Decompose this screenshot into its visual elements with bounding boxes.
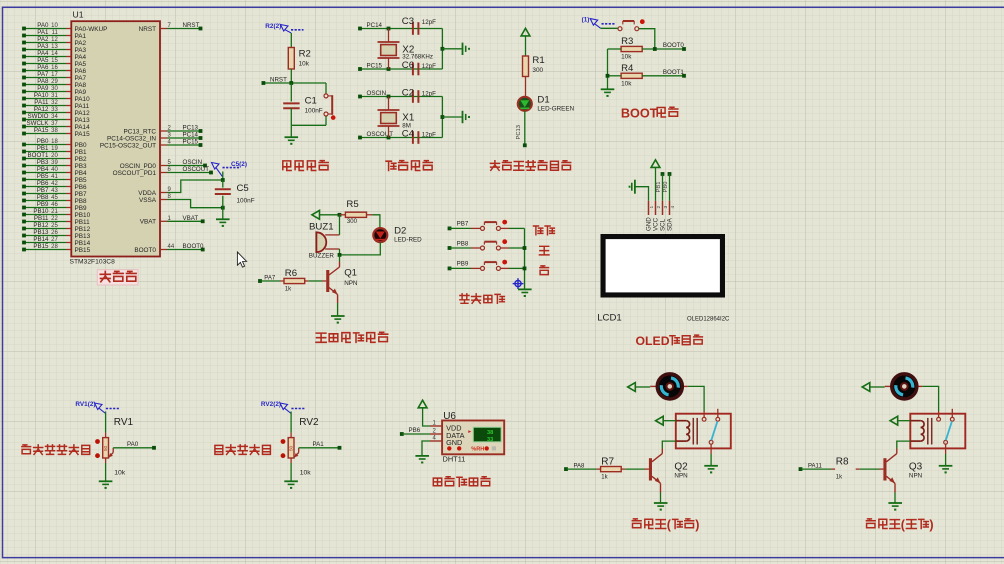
svg-text:PC13_RTC: PC13_RTC bbox=[123, 128, 156, 135]
svg-text:U6: U6 bbox=[443, 411, 456, 422]
wire to ground (reset) bbox=[290, 125, 292, 137]
svg-text:R3: R3 bbox=[621, 36, 633, 47]
svg-text:PA11: PA11 bbox=[75, 103, 90, 110]
svg-text:100nF: 100nF bbox=[237, 198, 255, 205]
svg-text:PB1: PB1 bbox=[37, 145, 49, 152]
svg-text:22: 22 bbox=[51, 216, 58, 222]
svg-text:PB7: PB7 bbox=[37, 187, 49, 194]
svg-text:4: 4 bbox=[670, 206, 676, 209]
ground (DHT11) bbox=[415, 455, 429, 457]
svg-text:25: 25 bbox=[51, 223, 58, 229]
svg-text:PB12: PB12 bbox=[33, 222, 49, 229]
relay coil bbox=[676, 421, 690, 441]
svg-text:PA12: PA12 bbox=[75, 110, 91, 117]
push button (BOOT) bbox=[618, 19, 645, 30]
svg-text:PA0: PA0 bbox=[37, 22, 49, 29]
label 继电器(风扇) bbox=[632, 519, 641, 528]
label 程序运行指示灯 (run indicator) bbox=[490, 161, 499, 171]
svg-text:PB10: PB10 bbox=[75, 212, 91, 219]
ground (crystal upper, rotated) bbox=[462, 43, 464, 55]
svg-text:VSSA: VSSA bbox=[139, 197, 157, 204]
relay switch blade bbox=[946, 421, 952, 440]
pin PA12 (33) / net PA12 bbox=[22, 106, 90, 117]
svg-text:PB2: PB2 bbox=[75, 156, 88, 163]
svg-text:D2: D2 bbox=[394, 226, 406, 237]
svg-text:PA13: PA13 bbox=[75, 117, 91, 124]
svg-text:14: 14 bbox=[51, 51, 58, 57]
wire OLED pin1 to ground bbox=[635, 187, 649, 201]
wire OLED pin2 power bbox=[655, 167, 657, 201]
pin PB12 (25) / net PB12 bbox=[22, 222, 90, 233]
svg-text:PB0: PB0 bbox=[75, 142, 88, 149]
svg-text:PC15-OSC32_OUT: PC15-OSC32_OUT bbox=[100, 142, 156, 149]
net PB0 wire to OLED pin4 bbox=[663, 172, 671, 201]
svg-text:PC15: PC15 bbox=[183, 139, 199, 146]
svg-text:PB15: PB15 bbox=[33, 243, 49, 250]
node rail-ground junction (upper) bbox=[441, 47, 445, 51]
wire power to coil bbox=[663, 420, 676, 422]
svg-text:PB3: PB3 bbox=[75, 163, 88, 170]
svg-text:Q1: Q1 bbox=[344, 268, 357, 279]
label 晶振电路 (crystal circuit) bbox=[386, 161, 396, 170]
svg-text:NRST: NRST bbox=[270, 76, 287, 83]
wire C1/button bottom rail bbox=[291, 124, 326, 126]
svg-text:33: 33 bbox=[487, 437, 493, 443]
svg-text:SDA: SDA bbox=[667, 217, 674, 231]
svg-text:PA4: PA4 bbox=[37, 50, 49, 57]
svg-text:27: 27 bbox=[51, 237, 58, 243]
svg-text:RV2: RV2 bbox=[299, 417, 319, 428]
svg-text:PB13: PB13 bbox=[75, 233, 91, 240]
svg-text:1k: 1k bbox=[601, 474, 608, 480]
net PB1 wire to OLED pin3 bbox=[656, 172, 664, 201]
svg-text:VBAT: VBAT bbox=[140, 219, 156, 226]
pin GND (4) bbox=[430, 436, 462, 447]
svg-text:C1: C1 bbox=[305, 96, 317, 107]
pin PB11 (22) / net PB11 bbox=[22, 215, 90, 226]
svg-text:10k: 10k bbox=[300, 470, 312, 477]
svg-text:RV1: RV1 bbox=[114, 417, 134, 428]
transistor Q3 NPN bbox=[883, 449, 922, 493]
pin OSCOUT_PD1 (6) / net OSCOUT bbox=[113, 166, 213, 177]
LED D2 LED-RED bbox=[373, 226, 422, 244]
pin PB14 (27) / net PB14 bbox=[22, 236, 90, 247]
svg-text:SWDIO: SWDIO bbox=[28, 113, 49, 120]
label 甲醛值调节 bbox=[215, 445, 223, 454]
svg-text:D1: D1 bbox=[537, 95, 549, 106]
svg-text:15: 15 bbox=[51, 58, 58, 64]
transistor Q2 NPN bbox=[649, 449, 688, 493]
svg-text:NPN: NPN bbox=[674, 472, 688, 479]
wire power to R1 bbox=[525, 36, 527, 57]
pin PA8 (29) / net PA8 bbox=[22, 78, 86, 89]
svg-text:R6: R6 bbox=[285, 268, 297, 279]
svg-text:PA1: PA1 bbox=[313, 441, 325, 448]
ground (RV1) bbox=[99, 480, 113, 482]
pin PB8 (45) / net PB8 bbox=[22, 194, 87, 205]
buzzer BUZ1 bbox=[309, 222, 340, 260]
power symbol (relay coil) bbox=[890, 416, 898, 425]
svg-text:RV2(2): RV2(2) bbox=[261, 401, 281, 408]
svg-text:PA10: PA10 bbox=[75, 96, 91, 103]
ground (alarm) bbox=[331, 315, 345, 317]
svg-text:C5(2): C5(2) bbox=[231, 161, 247, 168]
svg-text:13: 13 bbox=[51, 44, 58, 50]
relay core bars bbox=[693, 418, 697, 445]
pin OSCIN_PD0 (5) / net OSCIN bbox=[120, 159, 207, 170]
pin PA4 (14) / net PA4 bbox=[22, 50, 86, 61]
node NRST/R2/C1 junction bbox=[289, 81, 293, 85]
node OSCIN crystal junction bbox=[387, 95, 391, 99]
wire R2 top bbox=[290, 33, 292, 48]
svg-text:VBAT: VBAT bbox=[183, 215, 199, 222]
svg-text:NRST: NRST bbox=[139, 26, 156, 33]
svg-text:PB8: PB8 bbox=[75, 198, 88, 205]
svg-text:): ) bbox=[929, 518, 933, 532]
svg-text:1k: 1k bbox=[836, 474, 843, 480]
node PC14 crystal junction bbox=[387, 27, 391, 31]
svg-text:11: 11 bbox=[52, 30, 59, 36]
svg-text:PA7: PA7 bbox=[75, 75, 87, 82]
svg-text:PC14: PC14 bbox=[367, 22, 383, 29]
net PA0 wire from RV1 wiper bbox=[113, 441, 156, 450]
svg-text:PA8: PA8 bbox=[37, 78, 49, 85]
ground (RV2) bbox=[284, 480, 298, 482]
DHT11 buttons and %RH bbox=[447, 446, 496, 452]
svg-text:33: 33 bbox=[51, 107, 58, 113]
relay contact pins bbox=[702, 409, 720, 454]
svg-text:12pF: 12pF bbox=[422, 131, 436, 138]
blue wire-label R2(2) bbox=[265, 23, 303, 33]
svg-text:10k: 10k bbox=[621, 80, 632, 87]
svg-text:39: 39 bbox=[51, 160, 58, 166]
svg-text:17: 17 bbox=[51, 72, 58, 78]
svg-text:C5: C5 bbox=[237, 183, 249, 194]
svg-text:12pF: 12pF bbox=[422, 63, 436, 70]
svg-text:BUZZER: BUZZER bbox=[309, 253, 335, 260]
svg-text:PA1: PA1 bbox=[75, 33, 87, 40]
label 声光报警电路 (sound-light alarm) bbox=[316, 333, 326, 342]
wire coil bottom to collector bbox=[897, 441, 911, 448]
svg-text:18: 18 bbox=[51, 139, 58, 145]
capacitor C3 12pF bbox=[402, 16, 436, 35]
svg-text:SWCLK: SWCLK bbox=[26, 120, 49, 127]
svg-text:R7: R7 bbox=[601, 456, 614, 467]
wire relay common to ground bbox=[945, 454, 947, 465]
svg-text:PC15: PC15 bbox=[367, 63, 383, 70]
svg-text:C6: C6 bbox=[402, 60, 414, 71]
label 继电器(净化) bbox=[866, 519, 875, 528]
svg-text:28: 28 bbox=[51, 244, 58, 250]
svg-text:42: 42 bbox=[51, 181, 58, 187]
svg-text:10k: 10k bbox=[299, 61, 310, 68]
svg-text:PC14-OSC32_IN: PC14-OSC32_IN bbox=[107, 135, 156, 142]
svg-text:R5: R5 bbox=[346, 199, 358, 210]
svg-text:PA15: PA15 bbox=[34, 127, 49, 134]
relay switch blade bbox=[711, 421, 717, 440]
wire GND to ground (DHT11) bbox=[422, 441, 430, 456]
crystal X2 32.768KHz bbox=[378, 29, 433, 70]
svg-text:BOOT0: BOOT0 bbox=[183, 243, 205, 250]
svg-text:C3: C3 bbox=[402, 16, 414, 27]
svg-text:PB3: PB3 bbox=[37, 159, 49, 166]
wire junction to buzzer top bbox=[339, 215, 341, 235]
svg-text:PB4: PB4 bbox=[75, 170, 88, 177]
resistor R4 10k bbox=[621, 63, 642, 87]
svg-text:16: 16 bbox=[51, 65, 58, 71]
svg-text:19: 19 bbox=[51, 146, 58, 152]
resistor R1 300 bbox=[523, 55, 545, 76]
node rail-ground junction (lower) bbox=[441, 115, 445, 119]
push button PB9 bbox=[448, 260, 525, 271]
wire coil bottom to collector bbox=[662, 441, 676, 448]
wire emitter to ground (Q3) bbox=[894, 493, 896, 503]
wire relay common to ground bbox=[710, 454, 712, 465]
svg-text:U1: U1 bbox=[73, 10, 84, 20]
node BOOT0 terminal bbox=[682, 47, 686, 51]
svg-text:10k: 10k bbox=[114, 470, 126, 477]
svg-text:1k: 1k bbox=[285, 287, 292, 293]
svg-text:PB12: PB12 bbox=[75, 226, 91, 233]
relay RL (继电器(风扇)) body bbox=[676, 414, 731, 449]
wire rail to ground stub (lower) bbox=[442, 116, 461, 118]
pin VDDA (9) bbox=[138, 187, 171, 197]
svg-text:PA9: PA9 bbox=[37, 85, 49, 92]
label 可燃气值调节 bbox=[22, 445, 31, 454]
wire R3 right / net BOOT0 bbox=[642, 42, 684, 49]
label 主芯片 (main chip) highlight box bbox=[97, 270, 138, 285]
blue wire-label C5(2) bbox=[212, 161, 247, 176]
pin PA9 (30) / net PA9 bbox=[22, 85, 86, 96]
svg-text:PA0-WKUP: PA0-WKUP bbox=[75, 26, 108, 33]
pin PA6 (16) / net PA6 bbox=[22, 64, 86, 75]
svg-text:OLED12864I2C: OLED12864I2C bbox=[687, 316, 730, 322]
power symbol (alarm) bbox=[312, 210, 320, 219]
mouse cursor bbox=[237, 252, 246, 267]
svg-text:OSCIN: OSCIN bbox=[367, 90, 387, 97]
power symbol (OLED) bbox=[651, 160, 660, 168]
svg-text:OSCIN_PD0: OSCIN_PD0 bbox=[120, 163, 157, 170]
svg-text:PA11: PA11 bbox=[34, 99, 49, 106]
capacitor C5 100nF bbox=[215, 180, 255, 208]
svg-text:PB0: PB0 bbox=[37, 138, 49, 145]
power symbol (DHT11) bbox=[418, 400, 427, 408]
resistor R7 1k / net PA8 bbox=[564, 456, 649, 480]
pin PA15 (38) / net PA15 bbox=[22, 127, 90, 138]
pin PC14-OSC32_IN (3) / net PC14 bbox=[107, 132, 202, 143]
wire R4 left bbox=[608, 75, 622, 77]
resistor R6 1k / net PA7 bbox=[258, 268, 326, 292]
svg-text:BOOT1: BOOT1 bbox=[28, 152, 50, 159]
svg-text:PB6: PB6 bbox=[409, 427, 421, 434]
svg-text:50: 50 bbox=[289, 445, 294, 451]
pin PA13 (34) / net SWDIO bbox=[22, 113, 90, 124]
wire VSSA to C5 bottom bbox=[167, 200, 223, 208]
svg-text:46: 46 bbox=[51, 202, 58, 208]
svg-text:3: 3 bbox=[663, 206, 669, 209]
svg-text:BOOT1: BOOT1 bbox=[663, 69, 685, 76]
wire to boot button bbox=[601, 27, 618, 29]
net PC15 wire bbox=[358, 63, 442, 71]
resistor R2 10k bbox=[288, 48, 311, 70]
wire R3 left bbox=[608, 48, 622, 50]
pin PB0 (18) / net PB0 bbox=[22, 138, 87, 149]
wire VDDA to C5 top bbox=[167, 180, 223, 193]
node collector junction bbox=[338, 253, 342, 257]
label 复位电路 (reset circuit) bbox=[283, 161, 291, 171]
svg-text:PA1: PA1 bbox=[37, 29, 49, 36]
pin VSSA (8) bbox=[139, 194, 172, 204]
label 温湿度模块 (temp/humidity module) bbox=[433, 478, 441, 486]
push button PB8 bbox=[448, 239, 525, 250]
svg-text:PB6: PB6 bbox=[75, 184, 88, 191]
svg-text:PA5: PA5 bbox=[75, 61, 87, 68]
svg-text:R2(2): R2(2) bbox=[265, 23, 281, 30]
svg-text:PB11: PB11 bbox=[75, 219, 91, 226]
svg-text:38: 38 bbox=[51, 128, 58, 134]
wire crystal right rail (upper) bbox=[441, 29, 443, 70]
wire motor to relay pin bbox=[688, 386, 704, 411]
wire D2 to bottom rail bbox=[340, 242, 381, 255]
svg-text:BOOT0: BOOT0 bbox=[663, 42, 685, 49]
svg-text:PB11: PB11 bbox=[34, 215, 49, 222]
svg-text:Q2: Q2 bbox=[674, 462, 688, 473]
wire power to coil bbox=[897, 420, 910, 422]
ground (relay contact) bbox=[939, 465, 953, 467]
svg-text:44: 44 bbox=[168, 244, 175, 250]
node PC15 crystal junction bbox=[387, 67, 391, 71]
relay core bars bbox=[928, 418, 932, 445]
svg-text:34: 34 bbox=[51, 114, 58, 120]
svg-text:PA3: PA3 bbox=[37, 43, 49, 50]
ground (crystal lower, rotated) bbox=[462, 111, 464, 123]
svg-text:NPN: NPN bbox=[344, 280, 358, 287]
node PC13 wire end bbox=[523, 143, 527, 147]
wire button to BOOT0 rail bbox=[639, 29, 655, 49]
power symbol (relay coil) bbox=[656, 416, 664, 425]
svg-text:300: 300 bbox=[347, 219, 358, 225]
MCU U1 STM32F103C8 body bbox=[71, 21, 160, 256]
pin PB3 (39) / net PB3 bbox=[22, 159, 87, 170]
ground (OLED, rotated left) bbox=[634, 180, 636, 194]
svg-text:PB9: PB9 bbox=[37, 201, 49, 208]
capacitor C4 12pF bbox=[402, 128, 436, 144]
blue wire-label RV1(2) bbox=[75, 401, 119, 413]
power symbol (fan Q2) bbox=[628, 383, 636, 392]
wire power to motor bbox=[635, 386, 650, 388]
svg-text:): ) bbox=[695, 518, 699, 532]
svg-text:PC13: PC13 bbox=[183, 125, 199, 132]
blue wire-label RV2(2) bbox=[261, 401, 305, 413]
svg-text:12pF: 12pF bbox=[422, 90, 436, 97]
svg-text:40: 40 bbox=[51, 167, 58, 173]
svg-text:STM32F103C8: STM32F103C8 bbox=[70, 258, 116, 265]
relay contact pins bbox=[937, 409, 955, 454]
svg-text:PB10: PB10 bbox=[33, 208, 49, 215]
svg-text:DHT11: DHT11 bbox=[443, 455, 466, 464]
resistor R8 1k / net PA11 bbox=[799, 456, 884, 480]
svg-text:OSCIN: OSCIN bbox=[183, 159, 203, 166]
label 减 (minus) bbox=[540, 266, 549, 275]
node rail PB8 junction bbox=[523, 246, 527, 250]
svg-text:10: 10 bbox=[51, 23, 58, 29]
pin PB2 (20) / net BOOT1 bbox=[22, 152, 87, 163]
svg-text:PB14: PB14 bbox=[33, 236, 49, 243]
wire power to VDD bbox=[423, 407, 430, 426]
pin PA1 (11) / net PA1 bbox=[22, 29, 86, 40]
label 主芯片 text bbox=[100, 271, 110, 281]
svg-text:PB1: PB1 bbox=[75, 149, 88, 156]
net PC14 wire bbox=[358, 22, 442, 30]
ground (Q2 emitter) bbox=[654, 502, 668, 504]
wire C5 to ground bbox=[222, 208, 224, 219]
svg-text:(1): (1) bbox=[582, 16, 590, 23]
power symbol (fan Q3) bbox=[862, 383, 870, 392]
pin NRST (7) / net NRST bbox=[139, 22, 203, 33]
svg-text:PA10: PA10 bbox=[34, 92, 49, 99]
resistor R3 10k bbox=[621, 36, 642, 60]
pin PB4 (40) / net PB4 bbox=[22, 166, 87, 177]
svg-text:PC14: PC14 bbox=[183, 132, 199, 139]
svg-text:C2: C2 bbox=[402, 87, 414, 98]
svg-text:R1: R1 bbox=[532, 55, 544, 66]
svg-text:26: 26 bbox=[51, 230, 58, 236]
wire RV1 top bbox=[105, 412, 107, 433]
svg-text:1: 1 bbox=[649, 206, 655, 209]
wire RV1 bottom to ground bbox=[105, 458, 107, 463]
svg-text:PA4: PA4 bbox=[75, 54, 87, 61]
svg-text:10k: 10k bbox=[621, 54, 632, 61]
svg-text:300: 300 bbox=[532, 67, 543, 74]
push button (reset) bbox=[324, 83, 336, 125]
svg-text:PB5: PB5 bbox=[37, 173, 49, 180]
svg-text:PA6: PA6 bbox=[37, 64, 49, 71]
svg-text:PB9: PB9 bbox=[75, 205, 88, 212]
power symbol (indicator) bbox=[521, 28, 530, 36]
svg-text:PA12: PA12 bbox=[34, 106, 49, 113]
svg-text:12pF: 12pF bbox=[422, 19, 436, 26]
svg-text:43: 43 bbox=[51, 188, 58, 194]
svg-text:12: 12 bbox=[51, 37, 58, 43]
ground (keys) bbox=[518, 288, 532, 290]
svg-text:VCC: VCC bbox=[653, 217, 660, 231]
svg-text:SCL: SCL bbox=[660, 218, 667, 231]
wire buzzer bottom to collector rail bbox=[339, 249, 341, 255]
pin VBAT (1) / net VBAT bbox=[140, 215, 205, 226]
LED D1 LED-GREEN bbox=[518, 95, 575, 113]
relay RL (继电器(净化)) body bbox=[910, 414, 965, 449]
svg-text:100nF: 100nF bbox=[305, 108, 323, 115]
svg-text:VDDA: VDDA bbox=[138, 190, 156, 197]
motor/fan (继电器(风扇)) bbox=[650, 374, 688, 399]
svg-text:LED-GREEN: LED-GREEN bbox=[537, 105, 574, 112]
svg-text:R8: R8 bbox=[836, 456, 849, 467]
svg-text:LCD1: LCD1 bbox=[597, 312, 622, 323]
resistor R5 300 bbox=[340, 199, 373, 225]
svg-text:2: 2 bbox=[656, 206, 662, 209]
svg-text:29: 29 bbox=[51, 79, 58, 85]
wire R4 right / net BOOT1 bbox=[642, 69, 684, 76]
svg-text:OLED: OLED bbox=[636, 334, 670, 348]
wire RV2 top bbox=[290, 412, 292, 433]
ground (C5) bbox=[216, 218, 230, 220]
svg-text:BOOT: BOOT bbox=[621, 106, 658, 120]
wire stub above C5 junction bbox=[222, 172, 224, 181]
potentiometer RV1 10k bbox=[95, 417, 133, 477]
pin PB6 (42) / net PB6 bbox=[22, 180, 87, 191]
svg-text:GND: GND bbox=[646, 217, 653, 231]
wire power to motor bbox=[870, 386, 885, 388]
